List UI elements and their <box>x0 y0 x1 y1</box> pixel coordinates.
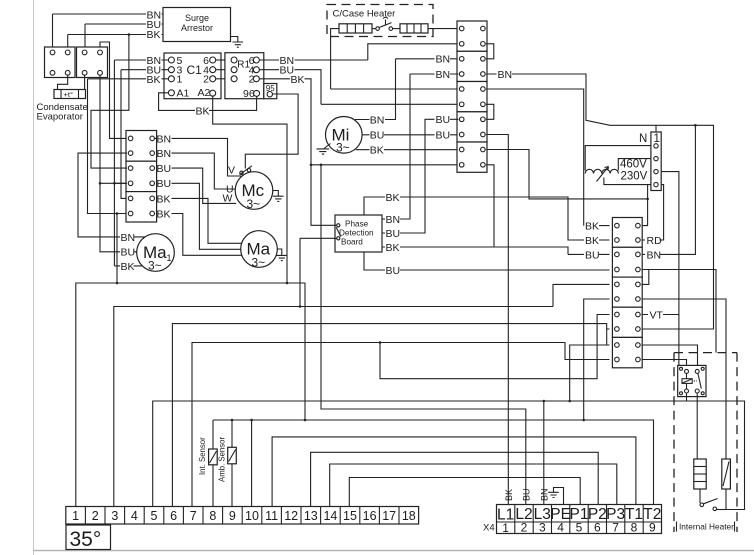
svg-text:BN: BN <box>121 232 136 244</box>
motor Ma <box>241 231 278 270</box>
svg-text:BN: BN <box>498 69 513 81</box>
label internal heater <box>677 522 735 532</box>
svg-text:16: 16 <box>363 509 377 523</box>
wire left strip row3 to Mc W <box>172 168 237 203</box>
svg-text:8: 8 <box>631 521 638 535</box>
svg-text:6: 6 <box>170 509 177 523</box>
wire N1 terminal 3 down to VT line <box>661 172 679 315</box>
thermal cutout F (internal heater) <box>722 459 731 510</box>
terminal block X4 (L1..T2) <box>483 505 662 536</box>
svg-text:460V: 460V <box>620 159 647 171</box>
switch (internal heater) <box>700 489 726 511</box>
svg-text:BU: BU <box>436 114 451 126</box>
wire mid row4 BN labels <box>410 69 458 81</box>
svg-text:8: 8 <box>209 509 216 523</box>
wire left strip row4 to Ma <box>172 183 242 249</box>
wire t5 line to heater switch <box>153 401 745 510</box>
svg-text:3~: 3~ <box>336 141 350 155</box>
terminal strip X2 (middle, 10 rows) <box>457 21 487 172</box>
svg-text:7: 7 <box>612 521 619 535</box>
jumper mid strip rows6-7 <box>486 104 494 119</box>
wire L1 riser with BK label <box>504 483 514 505</box>
wire BK to surge arrestor <box>68 29 163 47</box>
heater element E1 <box>339 24 372 33</box>
wire x3 row6 left down to sensor bus <box>584 299 610 420</box>
svg-text:BU: BU <box>386 228 401 240</box>
jumper x3 rows5-6 left bracket to t3 line <box>553 284 610 306</box>
wire L2 riser with BU label <box>522 483 532 505</box>
wire A1 to 96 with BK label <box>159 93 257 118</box>
wire left strip row6 to Ma <box>172 214 242 256</box>
wire x3 row3 BU from left <box>568 249 610 261</box>
wire BN into C1 pin 5 <box>114 55 168 67</box>
wire heater E2 to mid strip row1 <box>428 28 458 30</box>
svg-text:BN: BN <box>436 54 451 66</box>
wire heater E1 left leg down to BK net <box>331 29 339 89</box>
wire t3 line <box>114 307 553 507</box>
wire mid row9 right to x3 row3 (BN) <box>486 150 647 199</box>
svg-text:BK: BK <box>370 145 384 157</box>
svg-text:V: V <box>228 165 235 177</box>
wire C1/R1 link row 4-4 <box>216 69 231 71</box>
svg-text:N: N <box>639 133 647 145</box>
wire mid row8 right down to L1 <box>486 135 508 483</box>
ground (surge arrestor) <box>231 37 244 48</box>
wire sensor bus from R1-BK net <box>213 420 654 483</box>
svg-text:3: 3 <box>111 509 118 523</box>
thermal switch (c/case heater) <box>372 17 400 30</box>
int. sensor <box>198 420 217 507</box>
wire evaporator K2 to left strip row4 and Ma1 BU <box>100 75 137 252</box>
wire t6 line to x3 row8-9 jumper <box>172 324 606 507</box>
terminal block N/1 <box>639 132 661 191</box>
svg-text:1: 1 <box>502 521 509 535</box>
contactor block K1 (condensate evaporator) <box>45 47 76 78</box>
heater element E2 <box>400 24 428 33</box>
svg-text:Int. Sensor: Int. Sensor <box>198 437 207 475</box>
wire t13 to P2 <box>311 452 599 506</box>
svg-text:3: 3 <box>539 521 546 535</box>
wire phase board bottom pin BU to x3 row4 <box>364 252 610 277</box>
svg-text:C/Case Heater: C/Case Heater <box>333 9 396 20</box>
svg-text:4: 4 <box>557 521 564 535</box>
svg-text:BK: BK <box>386 242 400 254</box>
svg-text:Board: Board <box>341 238 363 247</box>
svg-text:BK: BK <box>386 192 400 204</box>
aux contact 95 <box>264 84 277 99</box>
amb. sensor <box>218 419 237 507</box>
svg-text:1: 1 <box>167 253 172 263</box>
terminal strip X3 (right, 10 rows) <box>612 218 642 368</box>
wire R1-BU down with junctions to mid rows5,6 then to L2 <box>259 65 525 484</box>
svg-text:10: 10 <box>245 509 259 523</box>
svg-text:BK: BK <box>147 29 161 41</box>
box 35 degrees <box>66 525 111 551</box>
svg-text:+t°: +t° <box>64 90 73 99</box>
svg-text:9: 9 <box>229 509 236 523</box>
svg-text:Surge: Surge <box>185 13 209 23</box>
svg-text:BU: BU <box>522 488 532 501</box>
svg-text:3~: 3~ <box>247 197 261 211</box>
svg-text:BN: BN <box>386 214 401 226</box>
svg-text:11: 11 <box>265 509 278 523</box>
motor Mi <box>326 117 363 155</box>
wire x3 row9 right to relay <box>642 345 698 370</box>
svg-text:14: 14 <box>323 509 337 523</box>
svg-text:1: 1 <box>177 74 183 86</box>
thermal contact on Mc <box>240 166 253 175</box>
svg-text:BK: BK <box>157 208 171 220</box>
wire C1 pin3 feed down to left strip row5 <box>121 70 127 199</box>
svg-text:Arrestor: Arrestor <box>181 23 213 33</box>
svg-text:BN: BN <box>540 488 550 501</box>
wire left strip row2 to Ma1 BN <box>78 153 146 237</box>
svg-text:BN: BN <box>436 69 451 81</box>
wire t15 to P1 <box>349 478 580 507</box>
svg-text:BU: BU <box>157 163 172 175</box>
wire x3 row8-9 jumper down to P-net <box>380 315 610 379</box>
wire BU into C1 pin 3 <box>121 65 168 77</box>
svg-text:BU: BU <box>280 65 295 77</box>
wire C1 pin1 feed down to left strip row6 <box>88 79 128 214</box>
wire x3 row9 left down to y401 net <box>570 345 607 401</box>
wire Mi BU to mid strip row8 <box>362 134 458 136</box>
wire phase board pin BU up to mid row7 <box>382 114 458 240</box>
svg-text:5: 5 <box>576 521 583 535</box>
wire left strip row2 to Mc U <box>172 153 237 189</box>
wire t7 line to x3 row10 <box>192 343 610 507</box>
wire BU to surge arrestor <box>85 19 163 47</box>
wire sensor bus to t10 <box>251 420 253 507</box>
wire x3 row6 right to internal heater cutout <box>642 299 727 459</box>
wire left strip row5 to Ma <box>172 198 242 243</box>
svg-text:2: 2 <box>92 509 99 523</box>
svg-text:2: 2 <box>203 74 209 86</box>
wire R1-BK net down to Mi BN and mid strip row10 <box>259 79 458 165</box>
wire left strip row1 to Mc V <box>155 138 243 176</box>
wire mid row5 right to x3 row2 <box>486 89 609 226</box>
overload relay R1 <box>225 53 264 100</box>
wire L3 riser <box>543 401 545 483</box>
wire x3 row3 right BN riser <box>642 125 696 254</box>
wire L3 riser with BN label <box>540 483 550 505</box>
svg-text:3~: 3~ <box>148 259 162 273</box>
svg-text:17: 17 <box>382 509 396 523</box>
wire t11 to T1 <box>272 437 636 507</box>
wire left strip row3 feed from BK line <box>91 35 129 169</box>
relay K (internal heater) <box>678 365 706 401</box>
svg-text:A1: A1 <box>177 88 190 100</box>
wire x3 row7 VT to relay <box>642 309 679 365</box>
wire t14 to P3 <box>330 464 617 507</box>
svg-text:RD: RD <box>647 235 663 247</box>
svg-text:5: 5 <box>151 509 158 523</box>
svg-text:15: 15 <box>343 509 357 523</box>
svg-text:96: 96 <box>243 88 255 100</box>
motor Mc <box>235 172 273 211</box>
wire contact K1 to left terminal row 1 <box>100 42 127 138</box>
left strip row labels <box>157 133 172 220</box>
wire phase board top pin BK to x3 row1 <box>364 192 610 240</box>
svg-text:1: 1 <box>654 133 660 145</box>
svg-text:BK: BK <box>504 489 514 501</box>
contactor C1 <box>164 53 221 100</box>
wire R1-BN to mid strip row3 with labels <box>259 54 458 67</box>
wire mid row4 right to N wire (BN) <box>486 69 713 329</box>
svg-text:Amb. Sensor: Amb. Sensor <box>218 437 227 482</box>
svg-text:BK: BK <box>196 105 210 117</box>
jumper mid strip rows2-3 <box>486 44 494 59</box>
svg-text:A2: A2 <box>198 87 211 99</box>
ground (PE) <box>548 488 563 505</box>
svg-text:Detection: Detection <box>339 229 374 238</box>
wire phase board pin BN up to mid row4 <box>382 74 410 226</box>
jumper x3 rows8-9 left <box>607 329 610 345</box>
surge arrestor U10 <box>163 8 231 42</box>
svg-text:7: 7 <box>190 509 197 523</box>
heater element E3 <box>694 393 706 489</box>
wire C1/R1 link row 2-2 <box>216 78 231 80</box>
wire x3 row4 right to relay branch <box>649 270 716 353</box>
svg-text:BU: BU <box>585 249 600 261</box>
svg-text:C1: C1 <box>187 63 203 77</box>
thermostat +t (condensate evaporator) <box>54 75 86 99</box>
svg-text:4: 4 <box>131 509 138 523</box>
wire t1 to A2 net <box>76 283 305 507</box>
svg-text:BK: BK <box>157 193 171 205</box>
svg-text:Evaporator: Evaporator <box>37 112 83 123</box>
contactor block K2 (condensate evaporator) <box>77 47 108 78</box>
svg-text:12: 12 <box>284 509 298 523</box>
svg-text:BN: BN <box>157 148 172 160</box>
transformer T1 460V/230V <box>585 146 651 185</box>
svg-text:BK: BK <box>121 261 135 273</box>
svg-text:BK: BK <box>585 221 599 233</box>
wire phase board left pin1 from R1 BK net <box>311 165 337 226</box>
wire x3 row10 right to y401 net <box>642 360 687 370</box>
ground (Mi) <box>317 144 331 155</box>
svg-text:BU: BU <box>370 130 385 142</box>
svg-text:VT: VT <box>650 309 664 321</box>
wire mid row10 right down to phase board BK <box>382 165 494 247</box>
svg-text:BU: BU <box>157 178 172 190</box>
svg-text:Internal Heater: Internal Heater <box>679 522 734 532</box>
svg-text:BU: BU <box>436 130 451 142</box>
svg-text:BU: BU <box>386 265 401 277</box>
phase detection board <box>335 215 382 252</box>
svg-text:3~: 3~ <box>252 256 266 270</box>
svg-text:18: 18 <box>402 509 416 523</box>
label condensate evaporator <box>37 102 88 123</box>
svg-text:BN: BN <box>370 114 385 126</box>
svg-text:9: 9 <box>649 521 656 535</box>
jumper x3 rows4-5 right <box>642 270 649 285</box>
svg-text:W: W <box>223 193 233 205</box>
ground (Ma) <box>277 249 288 261</box>
wire A2 down to junction <box>213 96 287 283</box>
wire Mi BK to mid strip row9 <box>356 149 459 151</box>
svg-text:35°: 35° <box>70 528 102 551</box>
wire BK into C1 pin 1 <box>88 74 169 86</box>
wire N terminal 1 up to BN feed <box>655 125 657 132</box>
svg-text:2: 2 <box>521 521 528 535</box>
svg-text:BK: BK <box>147 74 161 86</box>
svg-text:13: 13 <box>304 509 318 523</box>
terminal strip X1 (left, 6 rows) <box>126 131 157 223</box>
wire phase board left pin2 down to t3 line <box>300 238 337 306</box>
svg-text:BN: BN <box>647 249 662 261</box>
svg-text:BU: BU <box>121 247 136 259</box>
wire BN to surge arrestor <box>53 10 164 47</box>
wire T2 riser <box>653 483 655 505</box>
wire x3 row2 RD to transformer <box>642 185 664 247</box>
wire Mi BN <box>355 59 396 120</box>
ground (Mc) <box>273 191 284 202</box>
svg-text:BN: BN <box>157 133 172 145</box>
terminal strip X4 lower (1-18) <box>66 507 419 525</box>
C/Case heater dashed enclosure <box>327 5 433 37</box>
wire left strip row6 to Ma1 BK <box>114 265 142 267</box>
svg-text:230V: 230V <box>621 171 648 183</box>
wire branch up to mid strip row2 <box>368 44 459 60</box>
motor Ma1 <box>137 234 175 273</box>
svg-text:BK: BK <box>585 235 599 247</box>
svg-text:Phase: Phase <box>345 220 369 229</box>
svg-text:1: 1 <box>72 509 79 523</box>
wire C1 pin5 feed down to left strip row4 <box>113 60 115 266</box>
svg-text:X4: X4 <box>483 523 495 534</box>
wire C1/R1 link row 6-6 <box>216 59 231 61</box>
wire 95 to Mc thermal switch <box>245 94 298 169</box>
svg-text:6: 6 <box>594 521 601 535</box>
internal heater dashed enclosure <box>674 353 737 532</box>
frame lines (decorative) <box>33 0 35 555</box>
